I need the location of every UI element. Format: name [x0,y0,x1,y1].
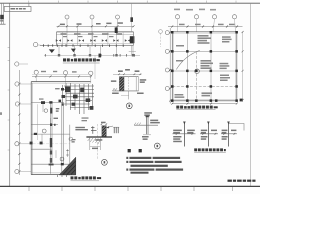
top dim texts [179,24,235,26]
MIDDLE DETAILS [82,69,161,165]
BOTTOM [228,180,256,182]
strip caption underline [63,62,100,64]
LEFT PLAN [0,55,101,181]
detail D3 column tee [134,112,160,149]
section arrow left [49,49,55,53]
T detail A [172,122,195,147]
column blobs [171,31,243,102]
left edge blobs [30,142,33,145]
strip body bottom edge [57,43,134,45]
pile bowtie symbols [56,39,130,42]
bottom right company text [228,180,256,182]
D3 below dims [142,136,149,140]
D4 wall hatched strip [102,126,106,137]
T details caption [194,148,226,151]
NOTES [126,149,183,174]
hanging pile verticals [59,45,133,55]
T detail B [200,122,218,147]
caption underline [176,109,215,111]
T detail C [221,122,244,147]
D3 left hatch [134,123,141,125]
top dimension line [168,26,243,28]
interior column blobs [34,101,64,165]
interior walls [31,102,70,173]
circled node [195,69,200,74]
left grid bubbles [15,62,19,66]
D4 footing thick line [86,136,112,138]
small interior marks [42,102,56,158]
bubble leaders [178,19,236,32]
left dimension line [169,28,171,104]
D1 lower stem [128,91,130,100]
D1 label circle [126,103,132,109]
D4 small hatched box [114,127,118,133]
strip caption [63,58,100,61]
note line 1 [126,157,180,159]
circle node left outside [159,30,163,34]
wall dark segments [50,138,52,147]
note line 3b [131,172,149,174]
grid extension line [94,55,96,79]
right side text marks [75,127,88,131]
left margin light block [0,19,3,21]
right plan caption [176,106,217,109]
detail D4 wall tee [82,117,120,165]
ticks below bottom edge [58,175,67,177]
dashed section line [97,124,99,160]
section line above strip right end [131,3,133,32]
texts above left plan dim [41,71,77,73]
left dimension line [18,70,20,175]
interior dark blobs upper [41,101,45,104]
leader lines [19,74,91,171]
strip body top edge [57,31,134,33]
grid verticals [188,32,212,101]
D1 break zigzag [113,88,118,91]
SHEET FRAME [0,1,260,191]
D4 soil hatch [88,138,101,144]
strip bay texts [61,33,123,37]
sub dim ticks [44,44,124,47]
bottom fold ticks [29,187,233,191]
left plan caption [71,176,102,179]
left border ruler ticks [8,48,10,151]
D3 column vertical [146,116,148,134]
notes title [128,149,142,152]
strip left end [56,32,58,46]
D3 horizontal [134,124,158,126]
sub dimension bubble [33,42,37,46]
D3 top texts [144,112,160,123]
D4 dim text [101,122,106,124]
bottom border line [0,185,260,187]
marks on line 164 [49,164,54,166]
feet dark blob [99,54,102,58]
plan outline top edge [31,81,90,83]
D4 label circle [102,159,108,165]
interior dim vertical [36,104,38,140]
strip bay verticals [62,32,123,46]
strip right end dark block [130,36,135,43]
plan left edge [30,82,32,175]
top border ticks [29,1,236,4]
D1 body lines [119,76,138,78]
RIGHT PLAN [159,9,244,110]
right side dim ticks [67,149,69,157]
dimension texts [60,22,123,25]
grid horizontals [172,52,237,87]
top dimension line [32,75,91,77]
hatched triangle ramp [59,157,76,175]
D1 side texts [111,79,146,94]
note line 3 [126,169,183,171]
door label marks [39,98,44,100]
left border corner double lines [0,3,2,24]
note line 2 [126,161,181,163]
D1 wall hatched strip [119,77,124,91]
grid bubble 3 [116,15,120,19]
section arrow mid [115,27,118,33]
section arrow right [71,49,76,53]
D3 label circle [154,143,160,149]
top-right dense cluster [63,83,95,114]
right side tick marks [91,126,97,134]
grid bubble 1 [65,15,69,19]
label box text [11,8,26,10]
detail D1 footing section [111,69,146,109]
top grid bubbles [175,15,179,19]
interior wall line y124.6 [31,124,58,126]
D4 leader arrow [106,126,113,128]
feet dimension line [44,54,140,56]
T DETAILS [172,122,244,153]
pile feet [58,54,134,56]
bottom dimension line [172,103,237,105]
left border line [9,3,11,186]
top grid bubbles [34,70,38,74]
left grid bubbles [165,31,169,35]
interior text blocks [175,35,232,98]
title label box top-left [4,7,31,12]
D4 below dims [89,138,91,150]
D1 dim texts [118,69,139,72]
right border line [250,3,252,186]
note line 2b [131,165,168,167]
top border line [0,2,260,4]
interior small texts [54,108,76,143]
small circle mark right [69,137,73,141]
plan bottom edge [31,172,70,174]
arc curve [176,50,200,69]
cluster dark blobs [61,87,93,110]
interior label circles [44,109,48,113]
D1 dim line [113,73,142,75]
top dimension line [57,25,134,27]
plan outline [172,32,237,101]
faint top texts [174,9,216,11]
left margin dark block [0,15,4,19]
D3 cap [146,116,150,118]
TOP STRIP PLAN [33,3,140,63]
grid leaders [67,19,118,47]
right dimension line [242,32,244,101]
caption underline [194,151,226,153]
grid bubble 2 [90,15,94,19]
left margin small mark [0,112,2,115]
